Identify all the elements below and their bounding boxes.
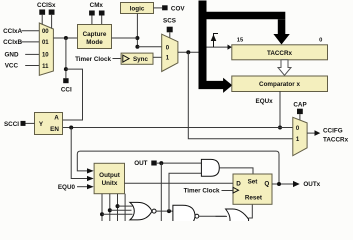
svg-text:Output: Output [99,172,121,179]
wire GND input [5,52,40,59]
wire CCIxA input [3,28,39,35]
svg-text:SCS: SCS [163,18,176,25]
node OUT pin [134,160,201,167]
svg-text:OUT: OUT [134,160,147,167]
svg-text:0: 0 [319,38,322,44]
node COV [162,5,185,12]
svg-text:logic: logic [130,6,145,13]
svg-text:Set: Set [248,179,259,186]
wire OUT feedback [77,151,279,184]
node SCCI pin [4,121,35,128]
block D flip-flop [233,174,272,204]
latch SCCI [35,113,63,135]
svg-text:01: 01 [42,40,49,46]
svg-text:Timer Clock: Timer Clock [75,56,111,63]
svg-text:COV: COV [171,5,185,12]
svg-text:11: 11 [42,64,49,70]
svg-text:CCIxB: CCIxB [3,39,22,46]
gate AND top [201,159,219,176]
svg-text:CAP: CAP [293,102,306,109]
wire CCI vertical [64,38,68,78]
wire capture signal down to CAP mux [188,52,292,139]
svg-text:SCCI: SCCI [4,121,19,128]
wire Q to OUTx [272,181,321,188]
mux CAP [293,117,307,155]
svg-text:EQU0: EQU0 [58,184,76,191]
node CAP [293,102,306,121]
node EQUx [256,98,274,105]
svg-text:D: D [236,180,241,187]
symbol block arrow down [278,60,291,76]
wire Sync out [153,56,162,58]
gate NOR bottom [130,202,177,220]
svg-text:10: 10 [42,53,49,59]
svg-text:VCC: VCC [5,63,19,70]
mux CCIS input select [39,23,53,75]
svg-text:CCISx: CCISx [37,2,56,9]
wire NOR out up to AND [169,173,201,211]
svg-text:EN: EN [50,126,59,133]
block Sync [121,53,153,64]
svg-text:Mode: Mode [86,39,103,46]
svg-text:Comparator x: Comparator x [259,81,300,88]
node CCI pin [61,78,72,93]
symbol edge trigger [211,34,218,48]
bus thick timer bus [199,1,290,93]
block logic [121,3,154,14]
svg-text:Q: Q [264,181,269,188]
svg-text:00: 00 [42,29,49,35]
svg-text:A: A [54,115,59,122]
wire logic to COV [154,7,163,9]
gate OR bottom right [216,204,253,221]
wire OU columns down [100,194,133,222]
wire VCC input [5,63,40,70]
register TACCRx [232,38,328,60]
wire Capture Mode out [112,38,162,47]
svg-text:GND: GND [5,52,19,59]
wire logic tap down [135,14,139,49]
svg-text:CCI: CCI [61,87,72,94]
mux SCS [162,34,178,71]
svg-text:CCIFG: CCIFG [323,128,343,135]
svg-text:TACCRx: TACCRx [323,137,349,144]
wire D input [125,182,234,184]
block Comparator x [232,76,328,92]
wire EQUx down [278,91,282,130]
svg-text:CMx: CMx [90,2,104,9]
block Output Unitx [94,163,124,193]
wire mux output to Capture Mode [53,36,77,40]
gate NAND bottom [173,205,226,226]
wire EQUx line to latch EN and CAP mux [63,126,293,130]
svg-text:OUTx: OUTx [303,181,320,188]
svg-text:TACCRx: TACCRx [267,50,293,57]
wire OUT down [160,163,162,221]
svg-text:CCIxA: CCIxA [3,28,22,35]
svg-text:Timer Clock: Timer Clock [184,188,220,195]
svg-text:Reset: Reset [245,195,263,202]
wire Timer Clock to FF [184,188,233,195]
svg-text:Unitx: Unitx [102,180,118,187]
svg-text:15: 15 [237,38,244,44]
svg-text:EQUx: EQUx [256,98,274,105]
wire CCIFG out [307,128,348,144]
block Capture Mode [78,25,112,49]
svg-text:Capture: Capture [83,31,107,38]
node CMx [89,2,104,25]
wire CCI branch to latch A [63,69,83,120]
wire capture signal [178,45,232,55]
node SCS [163,18,176,39]
wire CCIxB input [3,39,39,46]
node CCISx [37,2,56,29]
svg-text:Sync: Sync [133,56,149,63]
wire Timer Clock to Sync [75,56,121,63]
wire OU input arrows [58,128,94,192]
wire AND out to FF Set [219,168,253,174]
